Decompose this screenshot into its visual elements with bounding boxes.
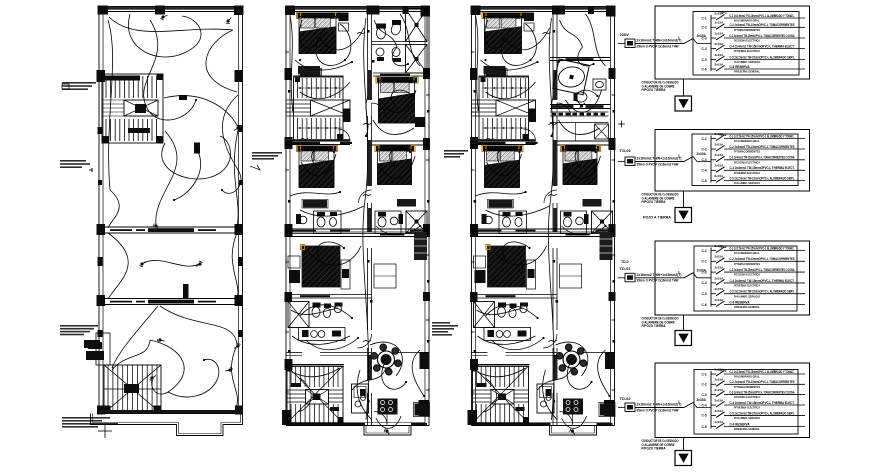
- plan3 bath sink right: [593, 79, 606, 90]
- svg-text:C-5 2x2.5mm2 TW-15mmOPVC-L ALU: C-5 2x2.5mm2 TW-15mmOPVC-L ALUMBRADO SER…: [730, 290, 795, 294]
- svg-text:C-1 2x2.5mm2 TW-15mmOPVC-L ALU: C-1 2x2.5mm2 TW-15mmOPVC-L ALUMBRADO Y T…: [730, 14, 795, 18]
- plan1 annotation text left upper: [62, 82, 96, 84]
- plan2 wire stair hall: [300, 82, 350, 99]
- plan3 bed 1 top-left: [483, 13, 524, 19]
- plan1 wire stair down: [156, 131, 177, 226]
- plan3 lower-left toilet: [498, 307, 506, 317]
- panel TD-1 breaker C-5: [702, 174, 725, 183]
- plan3 small bath left sink: [485, 216, 493, 224]
- plan1 wire bottom loop2: [168, 359, 219, 397]
- panel TD-3 circuit line C-6: [724, 422, 805, 431]
- panel TD-3 inner box: [694, 370, 798, 435]
- plan3 dining table: [556, 344, 587, 375]
- plan2 wall left bath row: [286, 294, 372, 296]
- svg-text:C-4 2x4mm2 TW-15mmOPVC-L THERM: C-4 2x4mm2 TW-15mmOPVC-L THERMA ELECT.: [730, 279, 795, 283]
- plan1 wire mid bay right: [232, 233, 238, 299]
- plan2 dining table: [371, 344, 402, 375]
- plan2 lower-left sink: [334, 305, 341, 312]
- plan2 wire clutter H: [300, 305, 352, 318]
- svg-text:P/TOMACORRIENTES: P/TOMACORRIENTES: [734, 28, 760, 32]
- plan2 shaft X lower: [406, 211, 427, 233]
- plan2 wire bedroom1 loop: [299, 20, 319, 48]
- svg-text:C-1: C-1: [702, 249, 707, 253]
- panel TD-3 breaker C-1: [702, 367, 725, 376]
- plan2 wall stair bottom row: [286, 140, 350, 142]
- plan3 top wall dark fill: [472, 7, 615, 10]
- plan2 central wall: [368, 13, 372, 425]
- plan1 lamp G: [225, 366, 233, 373]
- plan3 nightstand left of bed5: [474, 256, 486, 268]
- svg-text:C-5: C-5: [702, 292, 707, 296]
- svg-text:P/THERMA ELECTRICA: P/THERMA ELECTRICA: [734, 284, 761, 288]
- plan3 outer walls: [472, 7, 615, 426]
- svg-text:P/COCINA ELECTRICA: P/COCINA ELECTRICA: [734, 395, 761, 399]
- panel TG-1 breaker C-5: [702, 53, 725, 62]
- plan3 lamp bedroom5: [505, 261, 513, 269]
- plan2 wire clutter B: [316, 24, 351, 65]
- panel TD-3 breaker C-5: [702, 409, 725, 418]
- plan3 kitchen counter left: [484, 328, 531, 341]
- plan2 outer walls: [286, 7, 429, 426]
- plan2 lamp bedroom2: [393, 103, 400, 110]
- plan3 jacuzzi tub: [553, 59, 590, 95]
- plan1 wire bottom bay big loop: [160, 306, 237, 345]
- plan1 wall specks: [98, 180, 102, 185]
- svg-text:35mm O PVC-P 2x16mm2 THW: 35mm O PVC-P 2x16mm2 THW: [637, 279, 679, 283]
- svg-text:P/POZO TIERRA: P/POZO TIERRA: [642, 200, 667, 204]
- plan2 wire stair lower: [292, 368, 340, 377]
- svg-text:C-3 2x4mm2 TW-15mmOPVC-L TOMAC: C-3 2x4mm2 TW-15mmOPVC-L TOMACORRIENTES …: [730, 391, 795, 395]
- plan3 switches: [549, 123, 557, 125]
- plan3 dresser below bed4: [489, 200, 513, 208]
- plan2 wire bath top: [374, 20, 397, 47]
- panel TG-1 circuit line C-2: [724, 23, 805, 32]
- plan2 nightstand left of bed5: [288, 256, 300, 268]
- svg-text:2x16mm2 THW+1x16mm2(T): 2x16mm2 THW+1x16mm2(T): [637, 403, 682, 407]
- panel TD-2 breaker C-6: [702, 298, 725, 307]
- plan2 wire dining circle: [370, 342, 402, 376]
- plan1 riser duct bar: [183, 284, 189, 299]
- panel TD-2 feeder wire: [618, 270, 711, 278]
- plan2 outlets walls: [286, 50, 289, 54]
- svg-text:C-2 2x4mm2 TW-15mmOPVC-L TOMAC: C-2 2x4mm2 TW-15mmOPVC-L TOMACORRIENTES: [730, 145, 795, 149]
- plan1 columns top: [98, 6, 109, 15]
- plan3 columns right wall: [609, 68, 616, 79]
- plan3 dresser below bed1: [484, 66, 506, 74]
- plan2 top wall dark fill: [286, 7, 429, 10]
- plan3 small bath right row: [561, 211, 589, 234]
- panel TG-1 outer enclosure: [655, 6, 810, 79]
- svg-text:P/COCINA ELECTRICA: P/COCINA ELECTRICA: [734, 160, 761, 164]
- plan1 closet left wall: [96, 333, 110, 365]
- svg-text:C-1: C-1: [702, 16, 707, 20]
- plan1 top wall dark fill: [99, 7, 243, 10]
- svg-text:C-2: C-2: [702, 260, 707, 264]
- plan1 annotation text bottom: [62, 417, 110, 419]
- svg-text:2x30A: 2x30A: [697, 268, 707, 272]
- plan2 staircase upper: [286, 76, 351, 141]
- panel TD-2 bus: [710, 248, 712, 307]
- svg-text:C-6 RESERVA: C-6 RESERVA: [730, 300, 751, 304]
- plan1 wire bottom left: [112, 306, 158, 368]
- plan3 wire dining circle: [556, 342, 588, 376]
- plan3 wire bedroom2: [566, 90, 602, 112]
- plan2 columns top wall: [285, 6, 295, 16]
- plan2 wire shaft cross: [400, 14, 420, 66]
- plan3 wire entry: [562, 416, 587, 428]
- svg-text:2x15A: 2x15A: [715, 244, 725, 248]
- svg-text:2x15A: 2x15A: [715, 42, 725, 46]
- svg-text:P/TOMACORRIENTES: P/TOMACORRIENTES: [734, 385, 760, 389]
- svg-text:2x15A: 2x15A: [715, 142, 725, 146]
- plan1 lamp C: [234, 125, 241, 131]
- svg-text:P/TOMACORRIENTES: P/TOMACORRIENTES: [734, 262, 760, 266]
- plan2 dresser above stair: [300, 69, 321, 76]
- panel TD-2 circuit line C-4: [724, 279, 805, 288]
- plan2 switches: [363, 123, 371, 125]
- plan3 wire clutter F: [575, 148, 595, 168]
- plan2 wire riser drop: [366, 96, 368, 136]
- plan1 lamp A: [160, 14, 167, 21]
- panel TD-3 circuit line C-3: [724, 391, 805, 400]
- svg-text:2x15A: 2x15A: [715, 409, 725, 413]
- panel TD-1 outer enclosure: [655, 130, 810, 192]
- svg-text:C-1: C-1: [702, 372, 707, 376]
- plan3 annotation left: [444, 150, 468, 152]
- plan2 junction dots: [299, 59, 301, 61]
- plan2 bed 5 master dark: [301, 245, 341, 288]
- plan3 wire bedroom1 loop: [485, 20, 505, 48]
- panel TD-2 breaker C-5: [702, 287, 725, 296]
- plan1 survey cross: [98, 430, 112, 432]
- panel TG-1 circuit line C-1: [724, 14, 805, 23]
- svg-text:2x15A: 2x15A: [715, 174, 725, 178]
- plan3 wire clutter H: [486, 305, 538, 318]
- plan1 staircase lower: [104, 365, 162, 413]
- plan3 stove: [563, 399, 583, 415]
- plan2 stove: [378, 399, 398, 415]
- plan1 wire net top bay 2: [162, 136, 231, 179]
- plan3 bed 4 left: [483, 146, 522, 152]
- plan3 wire bedroom4: [487, 154, 522, 176]
- svg-text:C-1 2x2.5mm2 TW-15mmOPVC-L ALU: C-1 2x2.5mm2 TW-15mmOPVC-L ALUMBRADO Y T…: [730, 370, 795, 374]
- plan2 wire bedroom1 to door: [319, 28, 364, 50]
- plan3 shower top: [595, 124, 609, 139]
- plan2 wire mid-hall: [300, 206, 364, 216]
- panel TD-3 circuit line C-2: [724, 380, 805, 389]
- plan2 small bath right row: [375, 211, 403, 234]
- plan2 shaft X upper A: [406, 9, 428, 42]
- panel TD-1 ground wire: [683, 191, 685, 208]
- plan2 wire clutter E: [312, 148, 334, 168]
- panel TD-2 meter: [625, 273, 635, 282]
- plan1 annotation text left lower: [60, 325, 98, 327]
- panel TG-1 breaker C-3: [702, 31, 725, 40]
- plan3 kitchen sink unit: [537, 384, 554, 413]
- plan3 closet dash band: [550, 112, 609, 116]
- plan3 wire clutter J: [567, 360, 591, 389]
- plan3 bath toilet: [574, 92, 587, 102]
- plan2 tall cabinet right: [414, 232, 427, 260]
- plan3 wire top corridor: [549, 18, 553, 200]
- plan3 lamp bedroom3: [576, 165, 583, 172]
- svg-text:C-2: C-2: [702, 147, 707, 151]
- panel TD-3 feeder wire: [618, 400, 711, 408]
- svg-text:C-4 2x4mm2 TW-15mmOPVC-L THERM: C-4 2x4mm2 TW-15mmOPVC-L THERMA ELECT.: [730, 401, 795, 405]
- plan2 bed 1 top-left: [298, 13, 339, 19]
- panel TD-1 circuit line C-1: [724, 134, 805, 143]
- svg-text:P/THERMA ELECTRICA: P/THERMA ELECTRICA: [734, 171, 761, 175]
- plan2 sink 2: [392, 48, 400, 57]
- plan2 shaft X upper B: [406, 45, 428, 74]
- plan3 wire shaft cross: [586, 14, 606, 66]
- plan2 kitchen counter left: [299, 328, 346, 341]
- svg-text:P/COCINA ELECTRICA: P/COCINA ELECTRICA: [734, 39, 761, 43]
- plan3 desk right of bed5: [527, 260, 536, 289]
- panel TG-1 breaker C-1: [702, 11, 725, 20]
- plan3 side table bed1: [524, 13, 534, 22]
- svg-text:TD-0: TD-0: [621, 260, 629, 264]
- plan1 lamp F: [234, 343, 241, 349]
- plan2 switch bed1: [357, 32, 365, 34]
- plan2 annotation right lower: [432, 322, 450, 324]
- svg-text:P/THERMA ELECTRICA: P/THERMA ELECTRICA: [734, 49, 761, 53]
- plan3 wire lower hall: [478, 336, 536, 344]
- plan2 wire corridor lower: [363, 200, 369, 420]
- plan2 lamp bedroom3: [391, 165, 398, 172]
- svg-text:C-2: C-2: [702, 383, 707, 387]
- panel TD-2 circuit line C-5: [724, 290, 805, 299]
- plan1 mid bay ceiling outlets: [140, 262, 147, 268]
- svg-text:2x15A: 2x15A: [715, 153, 725, 157]
- plan2 wire bedroom2: [380, 90, 416, 112]
- svg-text:2x15A: 2x15A: [715, 420, 725, 424]
- plan3 hall divider: [550, 122, 609, 124]
- plan2 wire bedroom3: [379, 156, 415, 178]
- svg-text:P/RESERVA GENERAL: P/RESERVA GENERAL: [734, 305, 760, 309]
- svg-text:C-4: C-4: [702, 169, 707, 173]
- svg-text:C-4 2x4mm2 TW-15mmOPVC-L THERM: C-4 2x4mm2 TW-15mmOPVC-L THERMA ELECT.: [730, 166, 795, 170]
- plan3 wall stair bottom row: [472, 140, 536, 142]
- plan3 wire clutter K: [484, 378, 497, 412]
- panel TD-1 breaker C-4: [702, 164, 725, 173]
- panel TD-2 ground wire: [683, 315, 685, 331]
- plan3 wire clutter L: [543, 370, 558, 420]
- plan3 wall specks: [553, 30, 556, 33]
- plan1 beam wall lower: [103, 299, 239, 305]
- plan2 wire kitchen loop: [352, 368, 386, 390]
- plan3 entry notch bottom: [550, 426, 597, 436]
- svg-text:C-5 2x2.5mm2 TW-15mmOPVC-L ALU: C-5 2x2.5mm2 TW-15mmOPVC-L ALUMBRADO SER…: [730, 55, 795, 59]
- plan3 switch bed1: [543, 32, 551, 34]
- svg-text:2x15A: 2x15A: [715, 164, 725, 168]
- plan2 kitchen sink unit: [352, 384, 369, 413]
- svg-text:2x15A: 2x15A: [715, 378, 725, 382]
- plan2 toilet 1: [377, 27, 386, 39]
- plan2 bed 3 right: [376, 146, 414, 152]
- svg-text:2x15A: 2x15A: [715, 53, 725, 57]
- plan2 dresser below bed3: [397, 199, 416, 207]
- panel TD-3 breaker C-4: [702, 398, 725, 407]
- plan2 entry notch bottom: [364, 426, 411, 436]
- panel TD-2 ground electrode symbol: [675, 331, 692, 346]
- plan1 annotation text left mid: [60, 160, 86, 162]
- plan3 lamp bedroom4: [499, 165, 507, 173]
- panel TG-1 circuit line C-5: [724, 55, 805, 64]
- plan3 lamp bedroom1: [501, 33, 509, 40]
- plan1 beam wall upper: [103, 227, 239, 233]
- svg-text:2x15A: 2x15A: [715, 367, 725, 371]
- svg-text:P/POZO TIERRA: P/POZO TIERRA: [642, 324, 667, 328]
- plan2 lower-left bidet: [323, 308, 330, 317]
- panel TG-1 breaker C-6: [702, 62, 725, 71]
- plan2 columns right wall: [423, 68, 430, 79]
- panel TD-1 inner box: [692, 134, 798, 186]
- svg-text:2x15A: 2x15A: [715, 255, 725, 259]
- svg-text:C-2 2x4mm2 TW-15mmOPVC-L TOMAC: C-2 2x4mm2 TW-15mmOPVC-L TOMACORRIENTES: [730, 257, 795, 261]
- plan2 bed 2 right: [377, 77, 417, 83]
- svg-text:C-2 2x4mm2 TW-15mmOPVC-L TOMAC: C-2 2x4mm2 TW-15mmOPVC-L TOMACORRIENTES: [730, 380, 795, 384]
- plan2 bed 4 left: [298, 146, 337, 152]
- plan2 wire clutter D: [391, 90, 412, 106]
- plan2 columns left wall: [285, 68, 293, 80]
- plan2 sink 1: [376, 48, 384, 56]
- svg-text:P/ALUMBRADO GRAL.: P/ALUMBRADO GRAL.: [734, 375, 760, 379]
- plan3 closet right mid: [560, 264, 582, 288]
- svg-text:2x15A: 2x15A: [715, 287, 725, 291]
- plan3 wire clutter G: [503, 242, 530, 264]
- panel TD-1 meter: [625, 157, 635, 166]
- plan2 fridge: [415, 404, 429, 416]
- svg-text:35mm O PVC-P 2x16mm2 THW: 35mm O PVC-P 2x16mm2 THW: [637, 408, 679, 412]
- svg-text:C-5 2x2.5mm2 TW-15mmOPVC-L ALU: C-5 2x2.5mm2 TW-15mmOPVC-L ALUMBRADO SER…: [730, 411, 795, 415]
- plan3 shaft X lower: [592, 211, 613, 233]
- svg-text:C-3: C-3: [702, 393, 707, 397]
- plan1 wire mid link: [144, 260, 199, 266]
- plan2 entry door arc: [374, 412, 387, 425]
- panel TG-1 feeder wire: [618, 36, 711, 44]
- plan2 wire top corridor: [364, 18, 368, 200]
- panel TG-1 breaker C-4: [702, 42, 725, 51]
- panel TD-1 ground electrode symbol: [675, 208, 692, 223]
- panel TD-3 circuit line C-4: [724, 401, 805, 410]
- plan1 columns right edge: [235, 70, 244, 82]
- plan3 fridge: [600, 404, 614, 416]
- svg-text:2x15A: 2x15A: [715, 31, 725, 35]
- plan2 wire bedroom4: [301, 154, 336, 176]
- panel TG-1 circuit line C-3: [724, 34, 805, 43]
- plan3 wire bed2 door: [559, 120, 600, 135]
- plan3 wire bath row: [477, 308, 524, 315]
- plan2 wire clutter O: [376, 226, 420, 235]
- panel TD-3 ground electrode symbol: [675, 451, 692, 466]
- panel TG-1 meter: [625, 39, 635, 48]
- plan2 mid double wall: [286, 229, 429, 237]
- plan2 dresser below bed4: [303, 200, 327, 208]
- plan3 lower-left sink: [520, 305, 527, 312]
- svg-text:35mm O PVC-P 2x16mm2 THW: 35mm O PVC-P 2x16mm2 THW: [637, 44, 679, 48]
- svg-text:2x15A: 2x15A: [715, 398, 725, 402]
- svg-text:P/POZO TIERRA: P/POZO TIERRA: [642, 447, 667, 451]
- svg-text:C-5 2x2.5mm2 TW-15mmOPVC-L ALU: C-5 2x2.5mm2 TW-15mmOPVC-L ALUMBRADO SER…: [730, 176, 795, 180]
- svg-text:C-6: C-6: [702, 425, 707, 429]
- plan3 staircase upper: [472, 76, 537, 141]
- svg-text:2x16mm2 THW+1x16mm2(T): 2x16mm2 THW+1x16mm2(T): [637, 157, 682, 161]
- plan3 small bath left row: [499, 211, 527, 234]
- plan2 wire bed2 door: [373, 120, 414, 135]
- plan2 staircase lower: [287, 366, 344, 423]
- plan3 bottom wall dark segments: [473, 423, 551, 425]
- plan3 wire corridor lower: [548, 200, 554, 420]
- plan2 annotation left: [252, 152, 282, 154]
- svg-text:220V: 220V: [620, 32, 630, 37]
- panel TD-2 breaker C-2: [702, 255, 725, 264]
- plan2 door arcs central wall: [372, 103, 386, 117]
- plan2 wire bath row: [291, 308, 338, 315]
- svg-text:C-2: C-2: [702, 26, 707, 30]
- plan2 bath top-right walls: [372, 41, 407, 43]
- panel TD-1 circuit line C-5: [724, 176, 805, 185]
- svg-text:P/RESERVA GENERAL: P/RESERVA GENERAL: [734, 70, 760, 74]
- svg-text:C-6 RESERVA: C-6 RESERVA: [730, 65, 751, 69]
- plan2 small bath left row: [314, 211, 342, 234]
- svg-text:C-2 2x4mm2 TW-15mmOPVC-L TOMAC: C-2 2x4mm2 TW-15mmOPVC-L TOMACORRIENTES: [730, 23, 795, 27]
- plan2 small bath left sink: [299, 216, 307, 224]
- plan2 wire lower hall: [292, 336, 350, 344]
- plan3 wire clutter P: [481, 60, 538, 70]
- svg-text:TD-02: TD-02: [620, 396, 632, 401]
- panel TD-3 bus: [710, 371, 712, 429]
- panel TD-2 breaker C-1: [702, 244, 725, 253]
- plan3 lamp bedroom2: [579, 103, 586, 110]
- plan3 wire bedroom1 to door: [505, 28, 550, 50]
- plan3 wire clutter I: [492, 338, 544, 350]
- plan3 mid double wall: [472, 229, 615, 237]
- svg-text:C-4: C-4: [702, 281, 707, 285]
- plan2 wire clutter K: [298, 378, 311, 412]
- svg-text:2x15A: 2x15A: [715, 266, 725, 270]
- plan3 wire stair hall: [486, 82, 536, 99]
- plan1 wire mid bay left: [108, 233, 128, 299]
- plan3 bathroom lower-left shower: [474, 302, 495, 328]
- plan2 lamp bedroom1: [316, 33, 324, 40]
- panel TD-1 circuit line C-2: [724, 145, 805, 154]
- svg-text:C-4: C-4: [702, 403, 707, 407]
- plan3 columns top wall: [471, 6, 481, 16]
- svg-text:C-1 2x2.5mm2 TW-15mmOPVC-L ALU: C-1 2x2.5mm2 TW-15mmOPVC-L ALUMBRADO Y T…: [730, 134, 795, 138]
- plan2 wire clutter G: [317, 242, 344, 264]
- plan3 wire stair lower: [478, 368, 526, 377]
- svg-text:C-3 2x4mm2 TW-15mmOPVC-L TOMAC: C-3 2x4mm2 TW-15mmOPVC-L TOMACORRIENTES …: [730, 156, 795, 160]
- plan2 dresser below bed1: [298, 66, 320, 74]
- svg-text:C-3 2x4mm2 TW-15mmOPVC-L TOMAC: C-3 2x4mm2 TW-15mmOPVC-L TOMACORRIENTES …: [730, 268, 795, 272]
- panel TD-3 circuit line C-1: [724, 370, 805, 379]
- panel TD-1 breaker C-3: [702, 153, 725, 162]
- panel TD-1 circuit line C-4: [724, 166, 805, 175]
- panel TD-1 breaker C-2: [702, 142, 725, 151]
- panel TD-2 circuit line C-2: [724, 257, 805, 266]
- panel TD-3 breaker C-6: [702, 420, 725, 429]
- plan3 wire bedroom5: [494, 246, 547, 265]
- panel TD-1 feeder wire: [618, 154, 711, 162]
- plan1 wire right down: [234, 130, 238, 227]
- plan3 central wall: [553, 13, 557, 425]
- svg-text:2x15A: 2x15A: [715, 21, 725, 25]
- svg-text:P/ALUMBRADO GRAL.: P/ALUMBRADO GRAL.: [734, 251, 760, 255]
- svg-text:2x15A: 2x15A: [715, 298, 725, 302]
- plan2 wire clutter J: [382, 360, 406, 389]
- plan3 wire clutter N: [476, 192, 526, 196]
